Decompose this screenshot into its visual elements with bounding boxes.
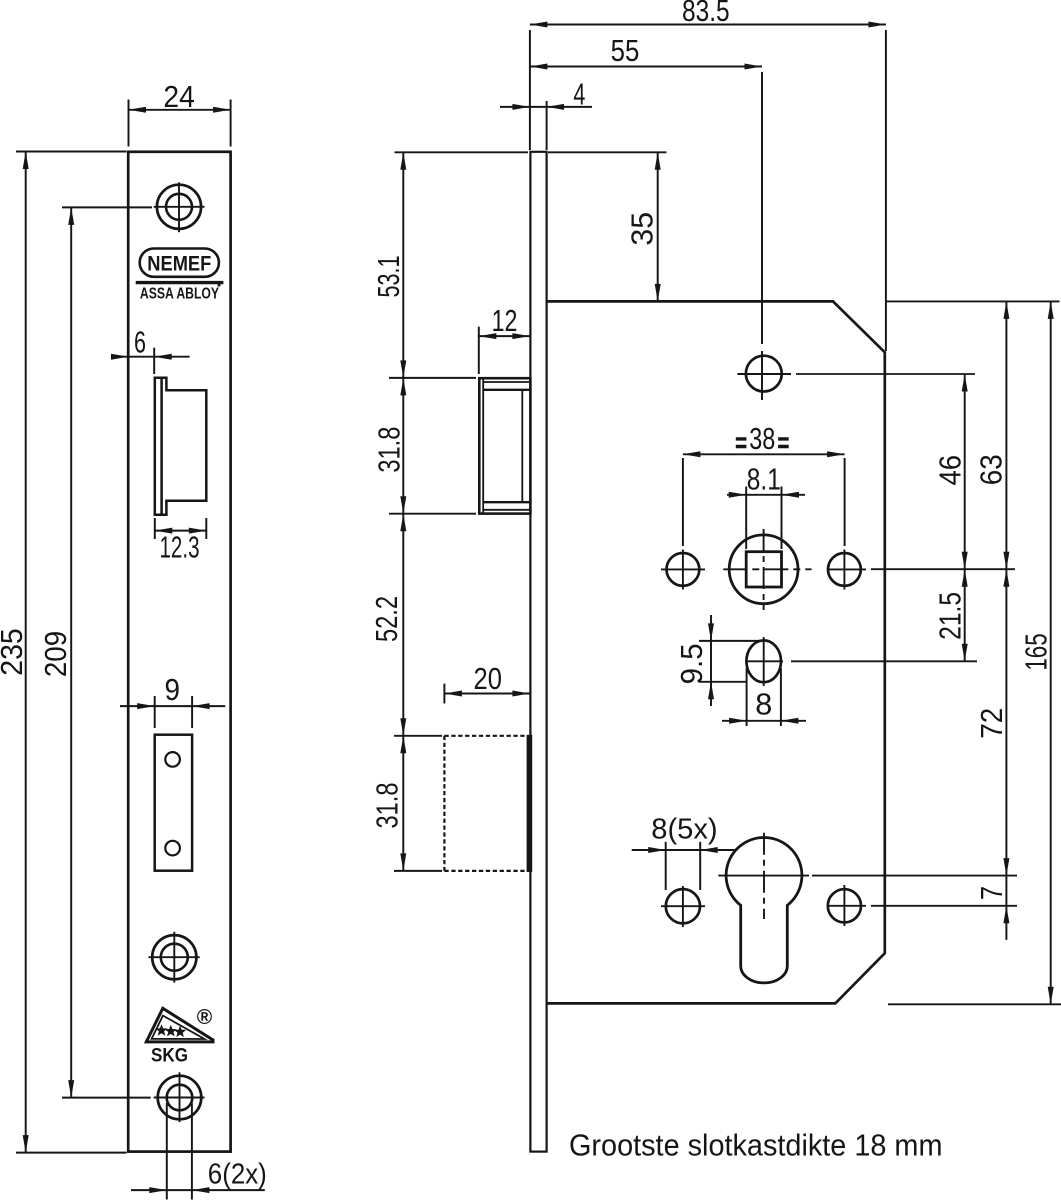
dimension 72 follower to cylinder	[974, 569, 1009, 875]
faceplate side view	[530, 152, 546, 1152]
svg-text:53.1: 53.1	[371, 256, 406, 298]
svg-text:6(2x): 6(2x)	[208, 1159, 267, 1191]
svg-text:72: 72	[974, 708, 1009, 739]
svg-text:55: 55	[611, 33, 640, 68]
faceplate front view outline	[128, 152, 230, 1152]
dimension 35 top hole offset	[548, 152, 667, 301]
svg-text:46: 46	[932, 455, 967, 486]
latch bolt side view	[479, 378, 530, 513]
svg-text:NEMEF: NEMEF	[147, 252, 211, 276]
latch bolt front view	[155, 378, 207, 515]
SKG certification logo	[146, 1006, 213, 1067]
oval hole reference line to 21.5	[791, 660, 977, 662]
dimension 9 strike plate width	[120, 672, 225, 728]
dimension 20 deadbolt width	[444, 661, 530, 704]
oval adjustment hole	[745, 637, 783, 686]
lock case outline	[547, 301, 885, 1003]
dimension 12.3 latch width	[155, 518, 207, 565]
dimension 8(5x) small hole diameter	[632, 813, 736, 890]
case bottom hole left	[661, 886, 705, 927]
svg-text:8: 8	[755, 686, 772, 721]
dimension 12 latch projection	[479, 303, 530, 374]
dimension 83.5 case depth	[530, 0, 886, 351]
svg-text:ASSA ABLOY: ASSA ABLOY	[140, 286, 220, 303]
svg-text:8.1: 8.1	[747, 462, 781, 497]
svg-text:12.3: 12.3	[160, 530, 200, 565]
handle fixing hole right	[828, 550, 866, 590]
NEMEF logo oval	[140, 249, 219, 277]
cylinder reference line to 72	[812, 875, 1017, 877]
follower square spindle hole	[746, 552, 781, 587]
deadbolt hidden outline dashed	[444, 735, 532, 872]
case bottom hole right	[828, 885, 866, 926]
strike plate rectangle	[155, 735, 192, 871]
case bottom edge extension line	[888, 1003, 1061, 1005]
dimension 209 hole spacing	[38, 207, 152, 1097]
svg-text:165: 165	[1019, 633, 1054, 670]
svg-text:24: 24	[163, 79, 194, 114]
bottom hole reference line to 7	[871, 905, 1017, 907]
strike plate hole upper	[165, 752, 180, 767]
case top hole	[737, 356, 791, 392]
ASSA ABLOY underline bar	[136, 281, 224, 287]
svg-text:9: 9	[165, 672, 181, 707]
dimension 21.5 follower to oval	[932, 569, 967, 661]
dimension 4 faceplate thickness	[500, 76, 592, 150]
dimension 8 oval width	[722, 668, 806, 726]
dimension 24 faceplate width	[129, 79, 231, 146]
svg-text:35: 35	[625, 212, 660, 246]
svg-text:20: 20	[474, 661, 502, 696]
dimension 7 cylinder to bottom holes	[974, 876, 1009, 940]
bottom screw hole	[154, 1072, 205, 1122]
case top edge extension line	[886, 300, 1060, 302]
svg-text:52.2: 52.2	[369, 596, 404, 642]
dimension 9.5 oval height	[674, 615, 764, 706]
svg-text:9.5: 9.5	[674, 643, 709, 684]
svg-text:31.8: 31.8	[372, 427, 407, 473]
svg-text:63: 63	[974, 454, 1009, 485]
svg-text:31.8: 31.8	[370, 783, 405, 829]
svg-text:209: 209	[38, 631, 73, 677]
dimension 63 case top to follower	[974, 301, 1010, 569]
svg-text:12: 12	[492, 303, 518, 338]
handle fixing hole left	[661, 550, 705, 590]
svg-text:235: 235	[0, 628, 29, 676]
follower reference line to 63	[871, 568, 1015, 570]
svg-text:6: 6	[134, 325, 146, 360]
dimension 55 backset	[530, 33, 762, 400]
svg-text:®: ®	[197, 1006, 213, 1029]
svg-text:8(5x): 8(5x)	[651, 813, 717, 845]
follower crosshair	[723, 529, 811, 610]
euro cylinder profile hole	[718, 833, 809, 983]
top hole reference line to 46	[796, 373, 975, 375]
dimension 6 latch offset	[111, 325, 190, 375]
follower hub circle	[729, 535, 798, 604]
dimension 8.1 follower square	[727, 462, 805, 549]
dimension 6(2x) screw hole diameter	[131, 1103, 267, 1200]
dimension =38= handle hole spacing	[683, 421, 845, 546]
svg-text:SKG: SKG	[151, 1045, 188, 1067]
top screw hole	[154, 182, 205, 232]
dimension 235 overall height	[0, 152, 126, 1153]
svg-text:38: 38	[749, 421, 775, 456]
dimension 46 top hole to follower	[932, 374, 967, 569]
svg-text:Grootste slotkastdikte 18 mm: Grootste slotkastdikte 18 mm	[569, 1128, 943, 1163]
svg-text:21.5: 21.5	[932, 592, 967, 640]
left dimension chain 53.1 / 31.8 / 52.2 / 31.8	[369, 152, 528, 871]
strike plate hole lower	[165, 841, 180, 856]
dimension 165 case height	[1019, 301, 1054, 1004]
svg-text:7: 7	[974, 886, 1009, 900]
middle spindle hole	[149, 932, 200, 983]
